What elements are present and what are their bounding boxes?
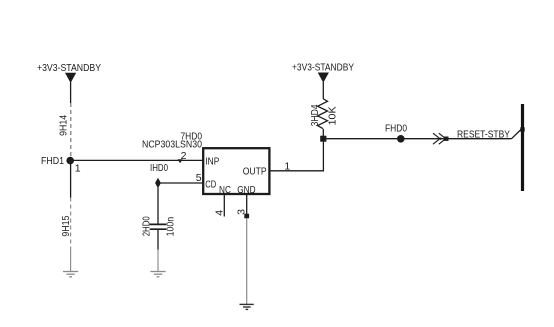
svg-text:9H15: 9H15: [60, 215, 72, 236]
wire net 9H15 dashed: [70, 198, 72, 251]
chevron 2: [439, 133, 447, 144]
wire FHD0 horizontal: [323, 138, 511, 140]
chevron 1: [433, 133, 441, 144]
svg-text:10K: 10K: [327, 106, 339, 125]
junction square (chevron): [444, 137, 449, 141]
svg-text:FHD1: FHD1: [41, 155, 64, 167]
svg-text:RESET-STBY: RESET-STBY: [457, 128, 510, 140]
bus bar RESET-STBY: [521, 104, 524, 191]
wire net 9H14 dashed: [70, 103, 72, 157]
wire pin 3 to ground gray: [246, 218, 248, 304]
svg-text:100n: 100n: [165, 217, 177, 237]
wire power to resistor: [322, 82, 324, 99]
wire FHD1 to INP pin 2: [70, 159, 203, 161]
svg-text:3HD4: 3HD4: [309, 104, 321, 126]
junction dot FHD0: [397, 135, 405, 143]
junction square on bus: [520, 127, 524, 131]
svg-text:+3V3-STANDBY: +3V3-STANDBY: [37, 62, 101, 74]
wire gray to ground (left): [70, 250, 72, 271]
wire left rail solid top: [70, 82, 72, 103]
svg-text:NCP303LSN30: NCP303LSN30: [142, 138, 202, 150]
wire below FHD1 solid: [70, 163, 72, 198]
svg-text:INP: INP: [205, 156, 219, 168]
svg-text:IHD0: IHD0: [150, 162, 168, 174]
wire pin 4 stub: [223, 194, 225, 217]
wire OUTP to resistor: [270, 139, 324, 171]
ground (pin 3): [240, 304, 254, 309]
svg-text:4: 4: [214, 210, 226, 216]
wire resistor to junction: [322, 129, 324, 139]
svg-text:+3V3-STANDBY: +3V3-STANDBY: [292, 62, 354, 74]
ground (capacitor, gray): [150, 272, 165, 277]
capacitor wire from diamond: [157, 188, 159, 225]
power symbol +3V3-STANDBY (right): [292, 62, 354, 83]
pin 2 tick: [178, 159, 183, 163]
junction square (resistor / OUTP / FHD0): [320, 136, 326, 142]
wire IHD0 to CD pin 5: [158, 182, 203, 184]
svg-text:OUTP: OUTP: [243, 166, 267, 178]
wire pin 3: [246, 194, 248, 214]
junction dot FHD1: [66, 157, 74, 165]
junction diamond IHD0: [155, 178, 161, 189]
svg-text:FHD0: FHD0: [385, 122, 407, 134]
resistor R 3HD4 zigzag: [318, 99, 328, 129]
wire below capacitor black: [157, 229, 159, 249]
capacitor C 2HD0 plates: [150, 224, 167, 229]
junction square pin 3: [244, 214, 249, 219]
svg-text:NC: NC: [219, 184, 231, 196]
op-amp U1 NCP303 body: [203, 148, 269, 194]
svg-text:9H14: 9H14: [58, 115, 70, 136]
power symbol +3V3-STANDBY (left): [37, 62, 101, 83]
svg-text:1: 1: [75, 162, 81, 174]
ground (left, gray): [63, 272, 78, 277]
svg-text:2HD0: 2HD0: [141, 216, 153, 236]
svg-text:CD: CD: [205, 179, 216, 191]
wire diagonal to bus: [512, 130, 522, 139]
wire below capacitor gray: [157, 250, 159, 272]
